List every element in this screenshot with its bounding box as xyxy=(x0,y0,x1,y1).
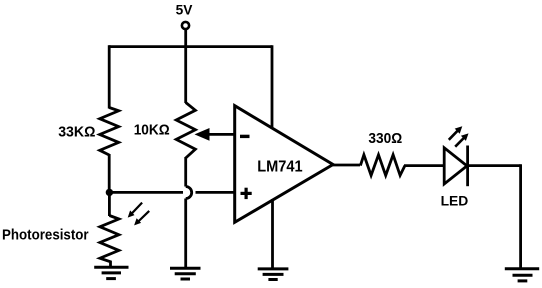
LED D1 triangle xyxy=(444,148,467,184)
LED light arrow 2 xyxy=(455,133,468,146)
wire top rail xyxy=(109,45,272,48)
op-amp minus pin sign xyxy=(240,135,250,138)
wire 5V terminal down to rail and pot top xyxy=(184,29,187,103)
wire hop bottom down to ground xyxy=(184,199,187,268)
ground output xyxy=(505,269,539,281)
resistor 33KΩ xyxy=(100,108,119,156)
svg-text:LED: LED xyxy=(441,192,469,208)
svg-text:10KΩ: 10KΩ xyxy=(134,122,170,138)
svg-text:LM741: LM741 xyxy=(257,159,303,176)
photoresistor body xyxy=(100,216,119,267)
photoresistor arrow 1 xyxy=(128,203,142,218)
resistor 330Ω xyxy=(360,155,405,176)
wire op-amp output xyxy=(331,164,360,167)
ground pot xyxy=(170,268,201,279)
junction node A xyxy=(106,189,113,196)
svg-text:330Ω: 330Ω xyxy=(368,131,402,147)
photoresistor arrow 2 xyxy=(134,211,149,226)
wire 33K bottom to junction xyxy=(108,154,111,193)
wire hop gap right to op-amp plus input xyxy=(196,191,237,194)
wire junction down to photoresistor xyxy=(108,192,111,216)
wire junction to hop gap left xyxy=(108,191,183,194)
wire wiper to op-amp minus input xyxy=(208,133,236,136)
op-amp plus pin sign xyxy=(241,188,252,199)
wire 330 to LED anode xyxy=(404,164,445,167)
potentiometer 10KΩ xyxy=(176,103,195,159)
LED cathode bar xyxy=(466,146,469,187)
LED light arrow 1 xyxy=(449,126,463,140)
wire LED cathode to right corner xyxy=(468,164,521,167)
op-amp U1 LM741 xyxy=(235,106,333,223)
wire rail left drop to R 33K xyxy=(108,45,111,108)
wire op-amp V- down to ground xyxy=(271,199,274,268)
wire rail right drop to op-amp V+ xyxy=(271,45,274,129)
ground op-amp xyxy=(258,269,289,280)
ground photoresistor xyxy=(94,267,128,278)
5V terminal circle xyxy=(182,22,189,29)
wire pot bottom down to hop xyxy=(184,157,187,187)
svg-text:33KΩ: 33KΩ xyxy=(58,125,96,141)
svg-text:Photoresistor: Photoresistor xyxy=(2,228,89,244)
wire right corner down to ground xyxy=(519,164,522,268)
pot wiper arrow xyxy=(195,128,210,141)
wire hop over horizontal wire xyxy=(186,187,192,199)
svg-text:5V: 5V xyxy=(176,2,193,18)
